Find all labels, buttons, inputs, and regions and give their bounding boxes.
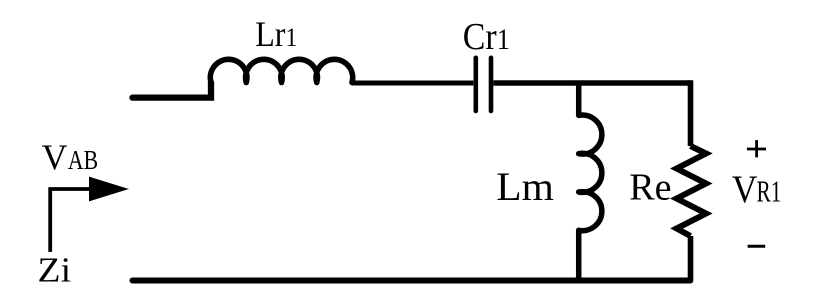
wire left input lead: [133, 83, 212, 98]
label Lr1: [255, 16, 297, 55]
resistor Re: [677, 146, 706, 236]
svg-text:Zi: Zi: [38, 250, 71, 290]
svg-text:Cr1: Cr1: [463, 15, 510, 57]
svg-text:Re: Re: [629, 166, 671, 208]
input arrow head: [89, 177, 129, 202]
input impedance corner wire (Zi): [50, 189, 92, 252]
node junction to Lm branch: [576, 83, 582, 115]
minus sign: [748, 245, 766, 248]
wire bottom return: [133, 278, 691, 284]
label VR1: [732, 168, 758, 211]
label Lm: [496, 163, 554, 208]
label Re: [629, 166, 671, 208]
wire inductor to capacitor: [352, 81, 473, 86]
svg-text:Lr1: Lr1: [255, 16, 297, 55]
wire right vertical top: [688, 80, 694, 146]
plus sign: [747, 140, 766, 157]
svg-text:V: V: [732, 168, 758, 211]
inductor Lr1: [210, 59, 352, 82]
wire Lm bottom lead: [576, 230, 582, 280]
capacitor Cr1: [476, 58, 491, 111]
inductor Lm: [579, 115, 602, 231]
svg-text:Lm: Lm: [496, 163, 554, 208]
label Zi: [38, 250, 71, 290]
label VAB: [42, 137, 68, 177]
svg-text:R1: R1: [757, 175, 782, 209]
svg-text:AB: AB: [68, 146, 98, 176]
wire right vertical bottom: [688, 236, 694, 281]
svg-text:V: V: [42, 137, 68, 177]
label Cr1: [463, 15, 510, 57]
wire capacitor to top-right corner: [493, 80, 690, 86]
